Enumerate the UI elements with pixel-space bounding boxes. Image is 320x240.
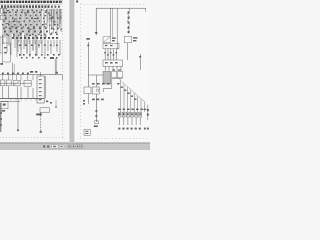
left page frame tick column	[62, 0, 64, 138]
ignition coil wavy element	[128, 8, 130, 33]
left page sheet	[0, 0, 69, 143]
rail drop wire 1	[95, 8, 97, 32]
rail drop arrow	[95, 32, 98, 35]
coil unit box	[124, 36, 131, 42]
cluster side marks	[83, 100, 85, 102]
status bar nav button 4	[80, 145, 83, 149]
sensor cluster box B	[92, 87, 99, 94]
harness W1 wires	[104, 49, 106, 60]
relay K1 box	[11, 22, 19, 27]
status bar icon 1	[43, 145, 45, 147]
connector pin marks J2	[51, 6, 53, 8]
switch S2 box	[6, 80, 11, 86]
labels beside sensor boxes	[112, 37, 116, 38]
wire code labels row 5	[6, 34, 8, 36]
bus stub pair	[12, 63, 14, 75]
fuse F1 wire pair	[54, 59, 56, 75]
left page top label band	[0, 1, 2, 3]
injector pigtails	[119, 117, 121, 125]
wire drop B terminal	[40, 131, 42, 133]
status bar page text	[53, 146, 56, 147]
left edge cropped wire	[0, 103, 2, 132]
bus left label	[0, 63, 3, 65]
coil drop wire	[127, 43, 129, 60]
far right wire column	[147, 105, 149, 121]
control unit U1 inner text	[39, 79, 42, 80]
switch S1 box	[0, 80, 5, 86]
rail drop wire 2b	[111, 8, 113, 37]
upper wire bundle infill	[4, 9, 6, 36]
status bar page field	[52, 145, 59, 148]
cluster drop terminal	[95, 121, 98, 124]
right page frame bottom tick row	[81, 138, 150, 140]
status bar nav button 1	[68, 145, 71, 149]
gutter soft edge left	[69, 0, 71, 143]
module box M2	[0, 15, 6, 19]
branch wire drop	[95, 75, 97, 87]
harness W1 labels	[104, 52, 106, 53]
right page corner label	[76, 0, 78, 2]
bus joint label	[30, 71, 33, 73]
fuse F1 label 10A	[50, 57, 54, 59]
cluster drop wire 1	[87, 94, 89, 104]
wavy element beads	[128, 12, 130, 14]
rail drop wire 3	[116, 8, 118, 49]
status bar zoom field	[59, 145, 64, 148]
connector C1 label	[2, 110, 6, 112]
wire code labels row 4	[3, 28, 5, 30]
left edge component stub	[0, 37, 2, 53]
stub wire below bus	[55, 100, 57, 106]
status bar nav button 3	[76, 145, 79, 149]
injector labels above row	[118, 109, 121, 110]
junction block inner label	[4, 47, 7, 48]
wire colour code labels row 3	[2, 24, 4, 26]
component row feed stubs	[2, 75, 4, 80]
sensor cluster labels above	[92, 83, 95, 85]
cluster drop label	[94, 125, 98, 127]
connector C1 box	[1, 101, 8, 109]
cluster drop beads	[95, 110, 97, 112]
junction block box	[2, 43, 10, 62]
top power rail	[96, 7, 145, 9]
relay K2 box	[13, 80, 20, 85]
left page frame tick row	[0, 137, 64, 139]
sensor cluster circle	[96, 89, 99, 92]
status bar	[0, 143, 150, 150]
sensor box B1 cross	[103, 37, 110, 42]
inline connector symbols row	[4, 31, 6, 33]
mid wire labels	[19, 45, 21, 47]
connector C2 box	[40, 108, 50, 112]
vertical wires to ground bus	[2, 86, 4, 98]
status bar icon 2	[47, 145, 49, 147]
long sensor wire label	[86, 38, 89, 40]
injector terminal labels	[118, 128, 120, 130]
branch wire horizontal	[88, 74, 103, 76]
sensor box B2	[103, 43, 119, 48]
wire drop A terminal	[17, 130, 19, 132]
mid label text row	[12, 37, 14, 39]
terminal box T1	[112, 71, 117, 77]
mid vertical wire bundle	[17, 40, 19, 52]
right page frame tick column	[80, 4, 82, 139]
terminal bottom rail	[112, 77, 123, 79]
far right label	[144, 128, 146, 130]
main feed bus	[0, 74, 62, 76]
connector C2 label	[36, 113, 42, 115]
connector block text	[105, 62, 108, 64]
right wire stub	[140, 54, 142, 70]
wire colour code labels row 2	[5, 18, 7, 20]
relay K3 box	[24, 80, 31, 86]
terminal box T2	[117, 71, 122, 77]
scattered label specks upper	[3, 10, 5, 11]
harness W2 wires	[104, 66, 106, 70]
shaded module box	[103, 71, 111, 84]
status bar top border	[0, 142, 150, 144]
left page top band rule	[0, 3, 62, 5]
wire end terminals	[19, 54, 21, 56]
left page bottom edge	[0, 142, 69, 144]
U1 top pin stub	[40, 72, 42, 76]
status bar nav button 2	[72, 145, 75, 149]
sensor cluster labels below	[92, 99, 95, 101]
sensor box B1	[103, 37, 111, 43]
page gutter	[69, 0, 74, 143]
sensor box B2 text	[105, 45, 108, 46]
shielded wire drop B	[40, 112, 42, 131]
ground bus secondary	[0, 101, 20, 103]
coil unit label	[133, 37, 137, 38]
long sensor wire	[87, 42, 89, 87]
injector fan labels	[117, 83, 119, 84]
injector wire fan	[120, 80, 122, 112]
left page number text	[60, 1, 63, 3]
right zone extra wires	[49, 9, 51, 34]
title block text	[85, 131, 88, 132]
right page bottom edge	[75, 142, 150, 144]
module box M1	[0, 8, 6, 13]
wire from U1 to right margin	[61, 75, 63, 80]
connector strip pin marks J1	[1, 5, 3, 8]
right page sheet	[75, 0, 150, 143]
cluster drop wire 2	[95, 94, 97, 122]
right page frame top tick row	[81, 4, 147, 6]
sensor cluster box A	[84, 87, 91, 94]
ground bus hatch ticks	[10, 99, 12, 101]
L route from terminals	[111, 78, 113, 88]
left edge wire label blobs	[0, 112, 2, 114]
long sensor wire bead	[87, 45, 89, 47]
injector connector row	[118, 112, 121, 117]
connector block box	[103, 60, 123, 66]
component row connecting wire	[0, 82, 32, 84]
ground bus main	[0, 98, 44, 100]
wire colour code labels row 1	[3, 12, 5, 14]
bus end labels	[46, 101, 48, 103]
terminal labels	[112, 69, 115, 70]
title block box	[84, 129, 90, 135]
rail end drop	[145, 8, 147, 11]
far right terminal label	[147, 128, 149, 130]
gutter soft edge right	[73, 0, 75, 143]
injector fan step stubs	[118, 78, 121, 80]
wire end terminals second row	[21, 57, 23, 59]
rail drop wire 2	[109, 8, 111, 37]
scattered horizontal dashes	[4, 11, 7, 14]
wire drop A	[17, 99, 19, 130]
lower label text row	[2, 73, 4, 75]
right zone extra specks	[48, 13, 50, 14]
control unit U1 tall box	[37, 76, 44, 103]
upper vertical wire bundle	[2, 8, 4, 44]
connector C1 inner mark	[3, 104, 6, 106]
